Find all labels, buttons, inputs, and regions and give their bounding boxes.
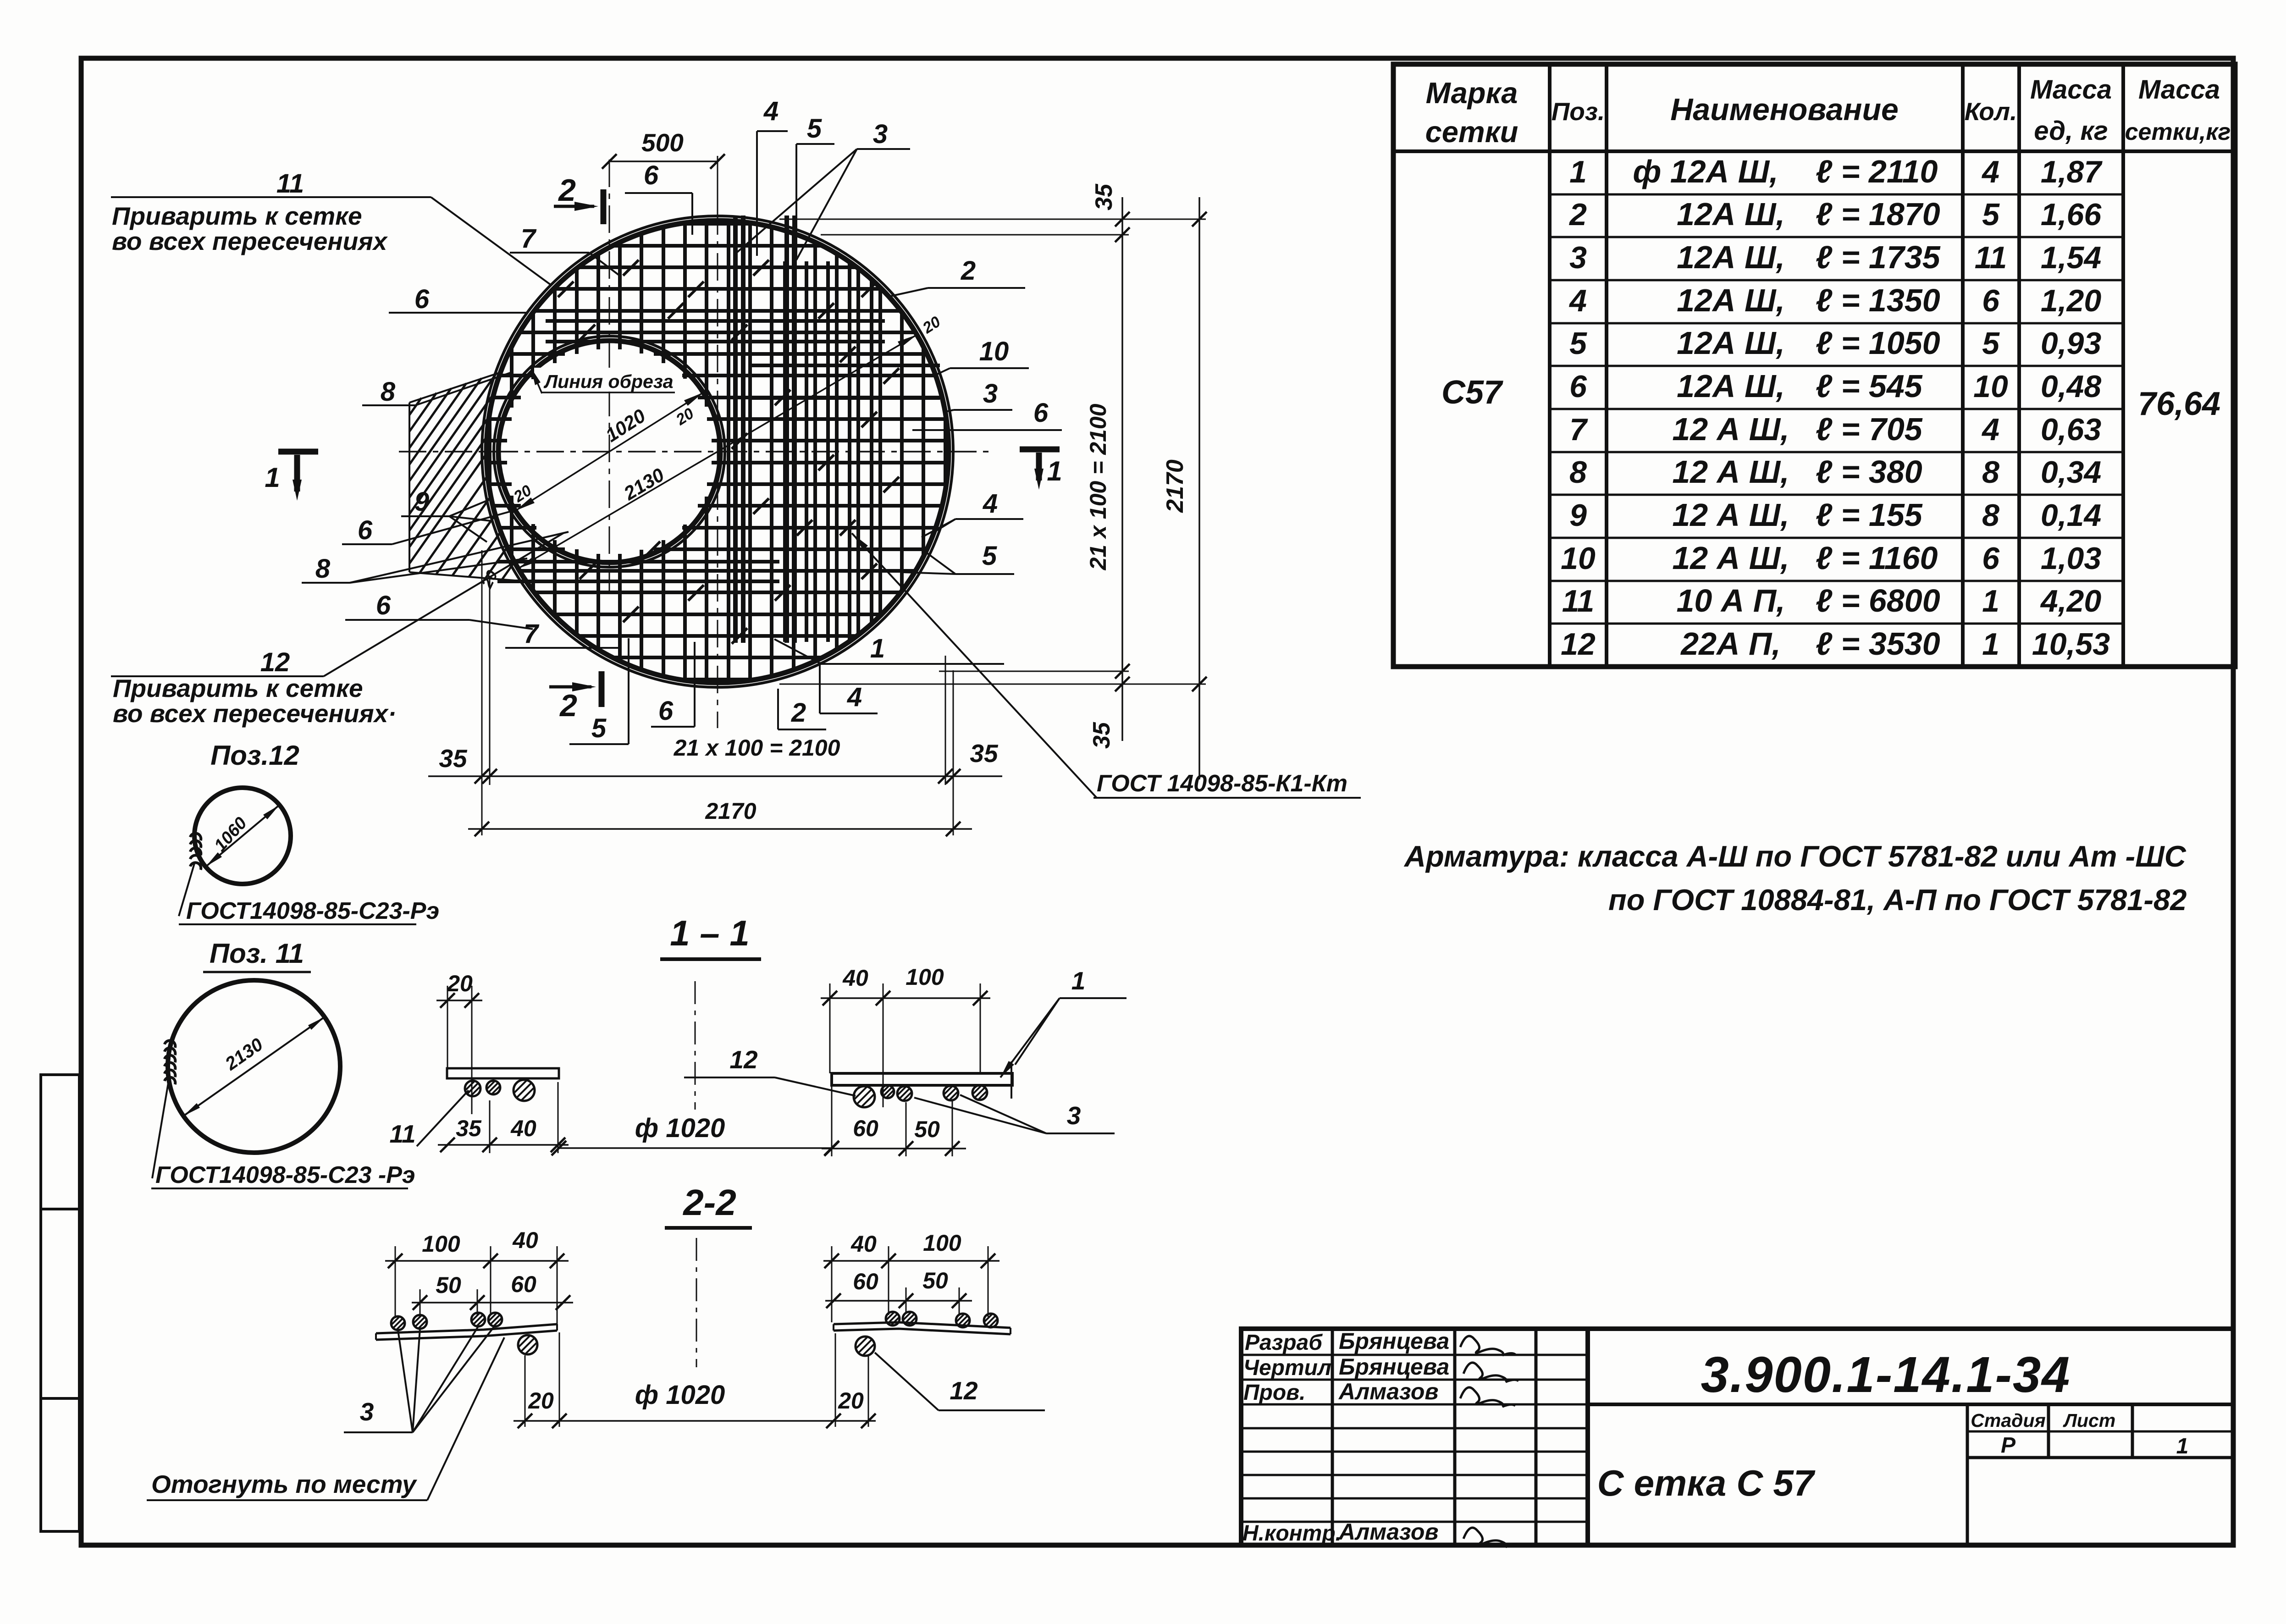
pos.12 diameter dim 1060 bbox=[206, 805, 279, 867]
svg-text:1,66: 1,66 bbox=[2041, 197, 2102, 232]
svg-text:Лист: Лист bbox=[2063, 1410, 2115, 1431]
svg-text:ℓ = 705: ℓ = 705 bbox=[1816, 411, 1923, 447]
svg-text:2: 2 bbox=[558, 173, 576, 208]
svg-text:ℓ = 1870: ℓ = 1870 bbox=[1816, 196, 1940, 232]
diameter dim 1020 inside hole bbox=[515, 392, 703, 511]
svg-text:1 – 1: 1 – 1 bbox=[670, 913, 749, 953]
svg-text:6: 6 bbox=[1569, 369, 1587, 404]
callout 6 (bottom) bbox=[651, 642, 695, 727]
diameter dim 2130 across big circle bbox=[518, 335, 917, 569]
svg-text:во всех пересечениях: во всех пересечениях bbox=[112, 227, 388, 255]
svg-text:1: 1 bbox=[1982, 627, 1999, 662]
svg-text:4: 4 bbox=[1981, 412, 1999, 447]
svg-text:7: 7 bbox=[1569, 412, 1588, 447]
svg-text:1,20: 1,20 bbox=[2041, 283, 2102, 318]
svg-text:2170: 2170 bbox=[705, 798, 756, 824]
callout 3 (right) bbox=[945, 379, 1012, 412]
callout 12 bbox=[111, 533, 564, 677]
svg-text:35: 35 bbox=[456, 1116, 482, 1141]
callout 1 (1-1 right) bbox=[1000, 967, 1126, 1077]
reinforcement class note bbox=[1403, 840, 2187, 917]
hole ring pos.12 (1060) bbox=[494, 336, 725, 567]
svg-text:3: 3 bbox=[873, 119, 888, 149]
callout 3 (1-1) bbox=[914, 1095, 1115, 1133]
svg-text:11: 11 bbox=[1562, 584, 1595, 619]
pos.11 diameter dim 2130 bbox=[183, 1017, 325, 1116]
svg-text:20: 20 bbox=[838, 1388, 864, 1414]
svg-text:6: 6 bbox=[358, 515, 373, 545]
svg-text:500: 500 bbox=[641, 128, 684, 157]
svg-text:12А Ш,: 12А Ш, bbox=[1677, 239, 1785, 275]
svg-text:10: 10 bbox=[1973, 369, 2008, 404]
svg-text:12А Ш,: 12А Ш, bbox=[1677, 368, 1785, 404]
note: weld to mesh at all intersections (bottom) bbox=[113, 674, 397, 728]
svg-text:сетки,кг: сетки,кг bbox=[2125, 119, 2231, 145]
svg-text:40: 40 bbox=[510, 1116, 536, 1141]
section 1-1 left rebar sections bbox=[465, 1081, 480, 1096]
svg-text:12А Ш,: 12А Ш, bbox=[1677, 282, 1785, 318]
svg-text:5: 5 bbox=[982, 541, 997, 571]
svg-text:Поз.12: Поз.12 bbox=[210, 740, 299, 771]
svg-text:10: 10 bbox=[979, 337, 1009, 366]
callout 5 (right) bbox=[902, 541, 1014, 574]
svg-text:Масса: Масса bbox=[2138, 75, 2220, 105]
dims 60 50 (1-1 right) bbox=[822, 1087, 966, 1156]
callout 4 (right) bbox=[922, 489, 1023, 537]
svg-text:5: 5 bbox=[1569, 326, 1587, 361]
svg-text:1: 1 bbox=[1982, 584, 1999, 619]
callout 6 (top mid) bbox=[625, 160, 692, 235]
svg-text:8: 8 bbox=[381, 377, 396, 407]
svg-text:4,20: 4,20 bbox=[2040, 584, 2102, 619]
bottom dim 2170 bbox=[468, 798, 972, 836]
svg-text:60: 60 bbox=[853, 1269, 878, 1294]
svg-text:1: 1 bbox=[2176, 1434, 2189, 1458]
svg-text:9: 9 bbox=[1569, 498, 1587, 533]
svg-text:1: 1 bbox=[870, 634, 885, 663]
svg-text:4: 4 bbox=[1568, 283, 1587, 318]
svg-text:8: 8 bbox=[1982, 498, 1999, 533]
svg-text:12 А Ш,: 12 А Ш, bbox=[1672, 411, 1789, 447]
label: cut line (Linija obreza) bbox=[531, 368, 676, 393]
svg-text:100: 100 bbox=[923, 1230, 961, 1256]
bottom dim chain 35/2100/35 bbox=[428, 550, 1002, 835]
callout 9 bbox=[401, 487, 491, 542]
pos.12 weld ref GOST14098-85-S23-Re bbox=[179, 862, 439, 924]
svg-text:11: 11 bbox=[389, 1120, 415, 1148]
callout 11 (1-1) bbox=[389, 1090, 469, 1148]
callout 8 (lower) bbox=[302, 532, 569, 584]
svg-text:4: 4 bbox=[763, 96, 779, 126]
svg-text:по ГОСТ 10884-81, А-П по Г: по ГОСТ 10884-81, А-П по ГОСТ 5781-82 bbox=[1608, 883, 2187, 917]
section 2-2 right rebar sections bbox=[886, 1312, 900, 1326]
svg-text:11: 11 bbox=[276, 169, 304, 199]
section cut marker 2 (top) bbox=[554, 173, 603, 224]
svg-text:Алмазов: Алмазов bbox=[1338, 1379, 1439, 1404]
svg-text:12А Ш,: 12А Ш, bbox=[1677, 325, 1785, 361]
right vertical dim chain 35/2100/35 bbox=[779, 183, 1206, 749]
callout 10 bbox=[935, 337, 1029, 375]
svg-text:3: 3 bbox=[1569, 240, 1587, 275]
svg-text:во всех пересечениях·: во всех пересечениях· bbox=[113, 699, 397, 728]
svg-text:12: 12 bbox=[1561, 627, 1596, 662]
callout 6 (mid left) bbox=[342, 511, 511, 545]
svg-text:22А П,: 22А П, bbox=[1680, 626, 1781, 662]
svg-text:6: 6 bbox=[644, 160, 659, 190]
callout 3 (top) bbox=[734, 119, 910, 260]
section 1-1 right rebar sections bbox=[854, 1086, 875, 1107]
center line horizontal (dash-dot) bbox=[399, 451, 990, 453]
callout 6 (right) bbox=[912, 398, 1062, 430]
svg-text:Кол.: Кол. bbox=[1965, 97, 2017, 126]
svg-text:50: 50 bbox=[914, 1116, 940, 1142]
svg-text:3: 3 bbox=[983, 379, 998, 409]
svg-text:ℓ = 1160: ℓ = 1160 bbox=[1816, 540, 1938, 576]
svg-text:11: 11 bbox=[1975, 240, 2007, 275]
section 1-1 left plate bbox=[447, 1068, 559, 1078]
outer circle: sheet edge 2170 bbox=[482, 216, 953, 687]
svg-text:1: 1 bbox=[1071, 967, 1086, 995]
svg-text:сетки: сетки bbox=[1425, 115, 1518, 149]
svg-text:Алмазов: Алмазов bbox=[1338, 1519, 1439, 1545]
svg-text:2: 2 bbox=[559, 688, 577, 723]
svg-text:40: 40 bbox=[850, 1231, 877, 1257]
dim 20 (2-2 left) bbox=[518, 1332, 567, 1428]
svg-text:5: 5 bbox=[591, 713, 607, 743]
svg-text:2-2: 2-2 bbox=[682, 1182, 736, 1223]
svg-text:2: 2 bbox=[791, 698, 806, 728]
svg-text:12 А Ш,: 12 А Ш, bbox=[1672, 454, 1789, 490]
callout 5 (bottom) bbox=[569, 638, 629, 744]
section cut marker 1 (left) bbox=[265, 452, 318, 501]
svg-text:6: 6 bbox=[376, 591, 391, 620]
note: weld to mesh at all intersections (top) bbox=[112, 202, 388, 255]
svg-text:1,87: 1,87 bbox=[2041, 155, 2103, 189]
section 1-1 title bbox=[660, 913, 761, 959]
svg-text:Чертил: Чертил bbox=[1243, 1356, 1331, 1380]
svg-text:ℓ = 1050: ℓ = 1050 bbox=[1816, 325, 1940, 361]
svg-text:ℓ = 380: ℓ = 380 bbox=[1816, 454, 1922, 490]
svg-text:12 А Ш,: 12 А Ш, bbox=[1672, 497, 1789, 533]
svg-text:Поз. 11: Поз. 11 bbox=[210, 938, 304, 969]
svg-text:ед, кг: ед, кг bbox=[2034, 116, 2108, 146]
svg-text:Марка: Марка bbox=[1426, 76, 1518, 110]
svg-text:6: 6 bbox=[1982, 541, 2000, 576]
svg-text:Стадия: Стадия bbox=[1971, 1410, 2045, 1431]
svg-text:5: 5 bbox=[807, 114, 822, 144]
dims 50 60 (2-2 left) bbox=[412, 1271, 573, 1317]
dim 20 (1-1 left) bbox=[436, 971, 482, 1114]
svg-text:Наименование: Наименование bbox=[1670, 92, 1899, 127]
svg-text:Р: Р bbox=[2001, 1433, 2016, 1458]
svg-text:Приварить к сетке: Приварить к сетке bbox=[113, 674, 363, 702]
svg-text:ℓ = 6800: ℓ = 6800 bbox=[1816, 583, 1940, 619]
callout 4 (top) bbox=[757, 96, 788, 256]
center line vertical hole bbox=[609, 160, 610, 592]
title block bbox=[1241, 1329, 2233, 1545]
pos.11 weld coil bbox=[165, 1039, 177, 1048]
dims 35 40 (1-1 left) bbox=[438, 1082, 569, 1153]
svg-text:12А Ш,: 12А Ш, bbox=[1677, 196, 1785, 232]
svg-text:8: 8 bbox=[1982, 455, 1999, 490]
svg-text:100: 100 bbox=[422, 1231, 460, 1257]
section 2-2 axis bbox=[696, 1238, 697, 1367]
svg-text:100: 100 bbox=[906, 964, 944, 990]
svg-text:1: 1 bbox=[265, 462, 280, 493]
svg-text:2: 2 bbox=[961, 256, 976, 286]
parts table bbox=[1393, 64, 2235, 667]
center line vertical big circle bbox=[717, 207, 718, 728]
svg-text:0,34: 0,34 bbox=[2041, 455, 2101, 490]
svg-text:С57: С57 bbox=[1441, 374, 1503, 411]
svg-text:6: 6 bbox=[414, 284, 430, 314]
weld designation GOST 14098-85-K1-Kt bbox=[852, 533, 1361, 798]
svg-text:ℓ = 155: ℓ = 155 bbox=[1816, 497, 1923, 533]
svg-text:35: 35 bbox=[1088, 722, 1115, 749]
svg-text:ℓ = 3530: ℓ = 3530 bbox=[1816, 626, 1940, 662]
svg-text:12: 12 bbox=[729, 1045, 758, 1074]
section 2-2 left plate (bent) bbox=[376, 1324, 557, 1340]
weld tick marks at intersections bbox=[558, 260, 899, 644]
svg-text:0,14: 0,14 bbox=[2041, 498, 2101, 533]
dim 20 (2-2 right) bbox=[835, 1333, 868, 1427]
svg-text:1,03: 1,03 bbox=[2041, 541, 2102, 576]
ring pos.11 / cut line 2130 bbox=[486, 221, 949, 683]
svg-text:35: 35 bbox=[439, 744, 468, 773]
svg-text:10 А П,: 10 А П, bbox=[1676, 583, 1785, 619]
dim f1020 (1-1) bbox=[552, 1113, 839, 1155]
callout 2 (right) bbox=[890, 256, 1025, 296]
svg-text:3.900.1-14.1-34: 3.900.1-14.1-34 bbox=[1701, 1347, 2071, 1403]
svg-text:Арматура: класса А-Ш по ГОС: Арматура: класса А-Ш по ГОСТ 5781-82 или… bbox=[1403, 840, 2187, 873]
svg-text:6: 6 bbox=[1982, 283, 2000, 318]
dim f1020 (2-2) bbox=[514, 1380, 876, 1428]
callout 8 (upper) bbox=[362, 372, 512, 407]
svg-text:ф 12А Ш,: ф 12А Ш, bbox=[1633, 154, 1778, 189]
callout 1 (bottom right) bbox=[774, 634, 1004, 664]
svg-text:ф 1020: ф 1020 bbox=[635, 1380, 725, 1410]
svg-text:Линия обреза: Линия обреза bbox=[543, 371, 674, 392]
svg-text:35: 35 bbox=[1091, 183, 1117, 210]
hatch wedge (weld zone) left of circle bbox=[409, 372, 526, 581]
svg-text:8: 8 bbox=[315, 554, 331, 584]
svg-text:40: 40 bbox=[842, 965, 868, 991]
svg-text:40: 40 bbox=[512, 1227, 538, 1253]
svg-text:ℓ = 2110: ℓ = 2110 bbox=[1816, 154, 1938, 189]
callout 3 (2-2) bbox=[344, 1326, 494, 1432]
svg-text:6: 6 bbox=[1033, 398, 1049, 428]
svg-text:ℓ = 545: ℓ = 545 bbox=[1816, 368, 1923, 404]
svg-text:ГОСТ14098-85-С23-Рэ: ГОСТ14098-85-С23-Рэ bbox=[186, 898, 439, 924]
svg-text:6: 6 bbox=[658, 696, 674, 726]
svg-text:10: 10 bbox=[1561, 541, 1596, 576]
svg-text:35: 35 bbox=[970, 739, 999, 768]
svg-text:0,48: 0,48 bbox=[2041, 369, 2102, 404]
callout 7 (bottom) bbox=[505, 619, 621, 649]
svg-text:50: 50 bbox=[922, 1268, 948, 1293]
svg-text:1,54: 1,54 bbox=[2041, 240, 2101, 275]
svg-text:5: 5 bbox=[1982, 326, 2000, 361]
title block labels bbox=[1242, 1328, 2188, 1547]
svg-text:20: 20 bbox=[447, 971, 473, 996]
callout 12 (1-1) bbox=[684, 1045, 856, 1096]
callout 11 bbox=[111, 169, 551, 285]
dimension 500 (hole offset) bbox=[602, 128, 725, 215]
svg-text:4: 4 bbox=[1981, 155, 1999, 189]
svg-text:0,93: 0,93 bbox=[2041, 326, 2102, 361]
svg-text:76,64: 76,64 bbox=[2138, 386, 2220, 422]
svg-text:1: 1 bbox=[1047, 456, 1062, 486]
svg-text:Отогнуть по месту: Отогнуть по месту bbox=[151, 1470, 417, 1498]
svg-text:3: 3 bbox=[1067, 1101, 1081, 1130]
svg-text:С етка С 57: С етка С 57 bbox=[1597, 1463, 1816, 1503]
svg-text:2170: 2170 bbox=[1162, 459, 1188, 513]
section 1-1 axis bbox=[695, 981, 696, 1110]
pos.1 long bars sticking below mesh bbox=[735, 215, 795, 643]
svg-text:Пров.: Пров. bbox=[1243, 1381, 1306, 1405]
section 2-2 left rebar sections bbox=[391, 1316, 405, 1330]
svg-text:ГОСТ14098-85-С23 -Рэ: ГОСТ14098-85-С23 -Рэ bbox=[155, 1162, 415, 1188]
svg-text:50: 50 bbox=[436, 1272, 461, 1298]
mesh grid bars bbox=[487, 221, 948, 682]
svg-text:ℓ = 1350: ℓ = 1350 bbox=[1816, 282, 1940, 318]
svg-text:7: 7 bbox=[521, 224, 537, 254]
svg-text:Поз.: Поз. bbox=[1552, 97, 1605, 126]
svg-text:Масса: Масса bbox=[2030, 75, 2112, 105]
left margin revision boxes bbox=[41, 1075, 79, 1531]
hole cut line 1020 bbox=[498, 341, 720, 563]
svg-text:4: 4 bbox=[847, 682, 862, 712]
svg-text:10,53: 10,53 bbox=[2032, 627, 2110, 662]
svg-text:Брянцева: Брянцева bbox=[1339, 1328, 1449, 1354]
callout 12 (2-2) bbox=[875, 1353, 1045, 1410]
callout 7 (top) bbox=[510, 224, 619, 275]
svg-text:Разраб: Разраб bbox=[1245, 1331, 1323, 1355]
svg-text:60: 60 bbox=[853, 1116, 878, 1141]
svg-text:3: 3 bbox=[360, 1398, 374, 1426]
right vertical dim 2170 bbox=[1162, 197, 1207, 779]
dims 60 50 (2-2 right) bbox=[825, 1268, 972, 1315]
svg-text:ф 1020: ф 1020 bbox=[635, 1113, 725, 1143]
callout 6 (lower left) bbox=[345, 591, 533, 629]
svg-text:21 x 100 = 2100: 21 x 100 = 2100 bbox=[674, 735, 840, 761]
section 1-1 right plate bbox=[832, 1073, 1012, 1085]
callout 4 (bottom) bbox=[820, 662, 878, 713]
dims 40 100 (2-2 right) bbox=[823, 1230, 999, 1322]
section 2-2 right plate (bent) bbox=[834, 1322, 1010, 1334]
svg-text:21 x 100 = 2100: 21 x 100 = 2100 bbox=[1085, 403, 1111, 570]
svg-text:1: 1 bbox=[1569, 155, 1587, 189]
svg-text:9: 9 bbox=[414, 487, 429, 517]
section 2-2 title bbox=[665, 1182, 752, 1228]
svg-text:ℓ = 1735: ℓ = 1735 bbox=[1816, 239, 1941, 275]
callout 2 (bottom) bbox=[778, 689, 826, 729]
svg-text:20: 20 bbox=[528, 1388, 554, 1414]
svg-text:12 А Ш,: 12 А Ш, bbox=[1672, 540, 1789, 576]
dims 40 100 (1-1 right) bbox=[821, 964, 990, 1107]
callout 6 (upper left) bbox=[389, 284, 527, 314]
svg-text:4: 4 bbox=[983, 489, 998, 519]
svg-text:12: 12 bbox=[260, 647, 290, 677]
pos.12 weld coil bbox=[190, 832, 203, 840]
svg-text:Приварить к сетке: Приварить к сетке bbox=[112, 202, 362, 230]
detail pos.11 ring bbox=[168, 980, 340, 1153]
svg-text:ГОСТ 14098-85-К1-Кт: ГОСТ 14098-85-К1-Кт bbox=[1097, 770, 1347, 797]
section cut marker 2 (bottom) bbox=[549, 671, 602, 723]
dims 100 40 (2-2 left) bbox=[385, 1227, 569, 1325]
pos.11 weld ref GOST14098-85-S23-Re bbox=[151, 1080, 415, 1188]
detail pos.12 ring bbox=[194, 788, 291, 884]
detail pos.11 heading bbox=[203, 938, 311, 972]
svg-text:8: 8 bbox=[1569, 455, 1587, 490]
svg-text:2: 2 bbox=[1568, 197, 1587, 232]
svg-text:12: 12 bbox=[950, 1376, 978, 1405]
note bend in place (Otognut po mestu) bbox=[147, 1337, 504, 1500]
callout 5 (top) bbox=[796, 114, 834, 257]
svg-text:60: 60 bbox=[511, 1271, 536, 1297]
svg-text:7: 7 bbox=[524, 619, 540, 649]
svg-text:0,63: 0,63 bbox=[2041, 412, 2102, 447]
svg-text:Н.контр.: Н.контр. bbox=[1242, 1521, 1342, 1546]
svg-text:Брянцева: Брянцева bbox=[1339, 1354, 1449, 1380]
section cut marker 1 (right) bbox=[1020, 449, 1062, 490]
svg-text:5: 5 bbox=[1982, 197, 2000, 232]
